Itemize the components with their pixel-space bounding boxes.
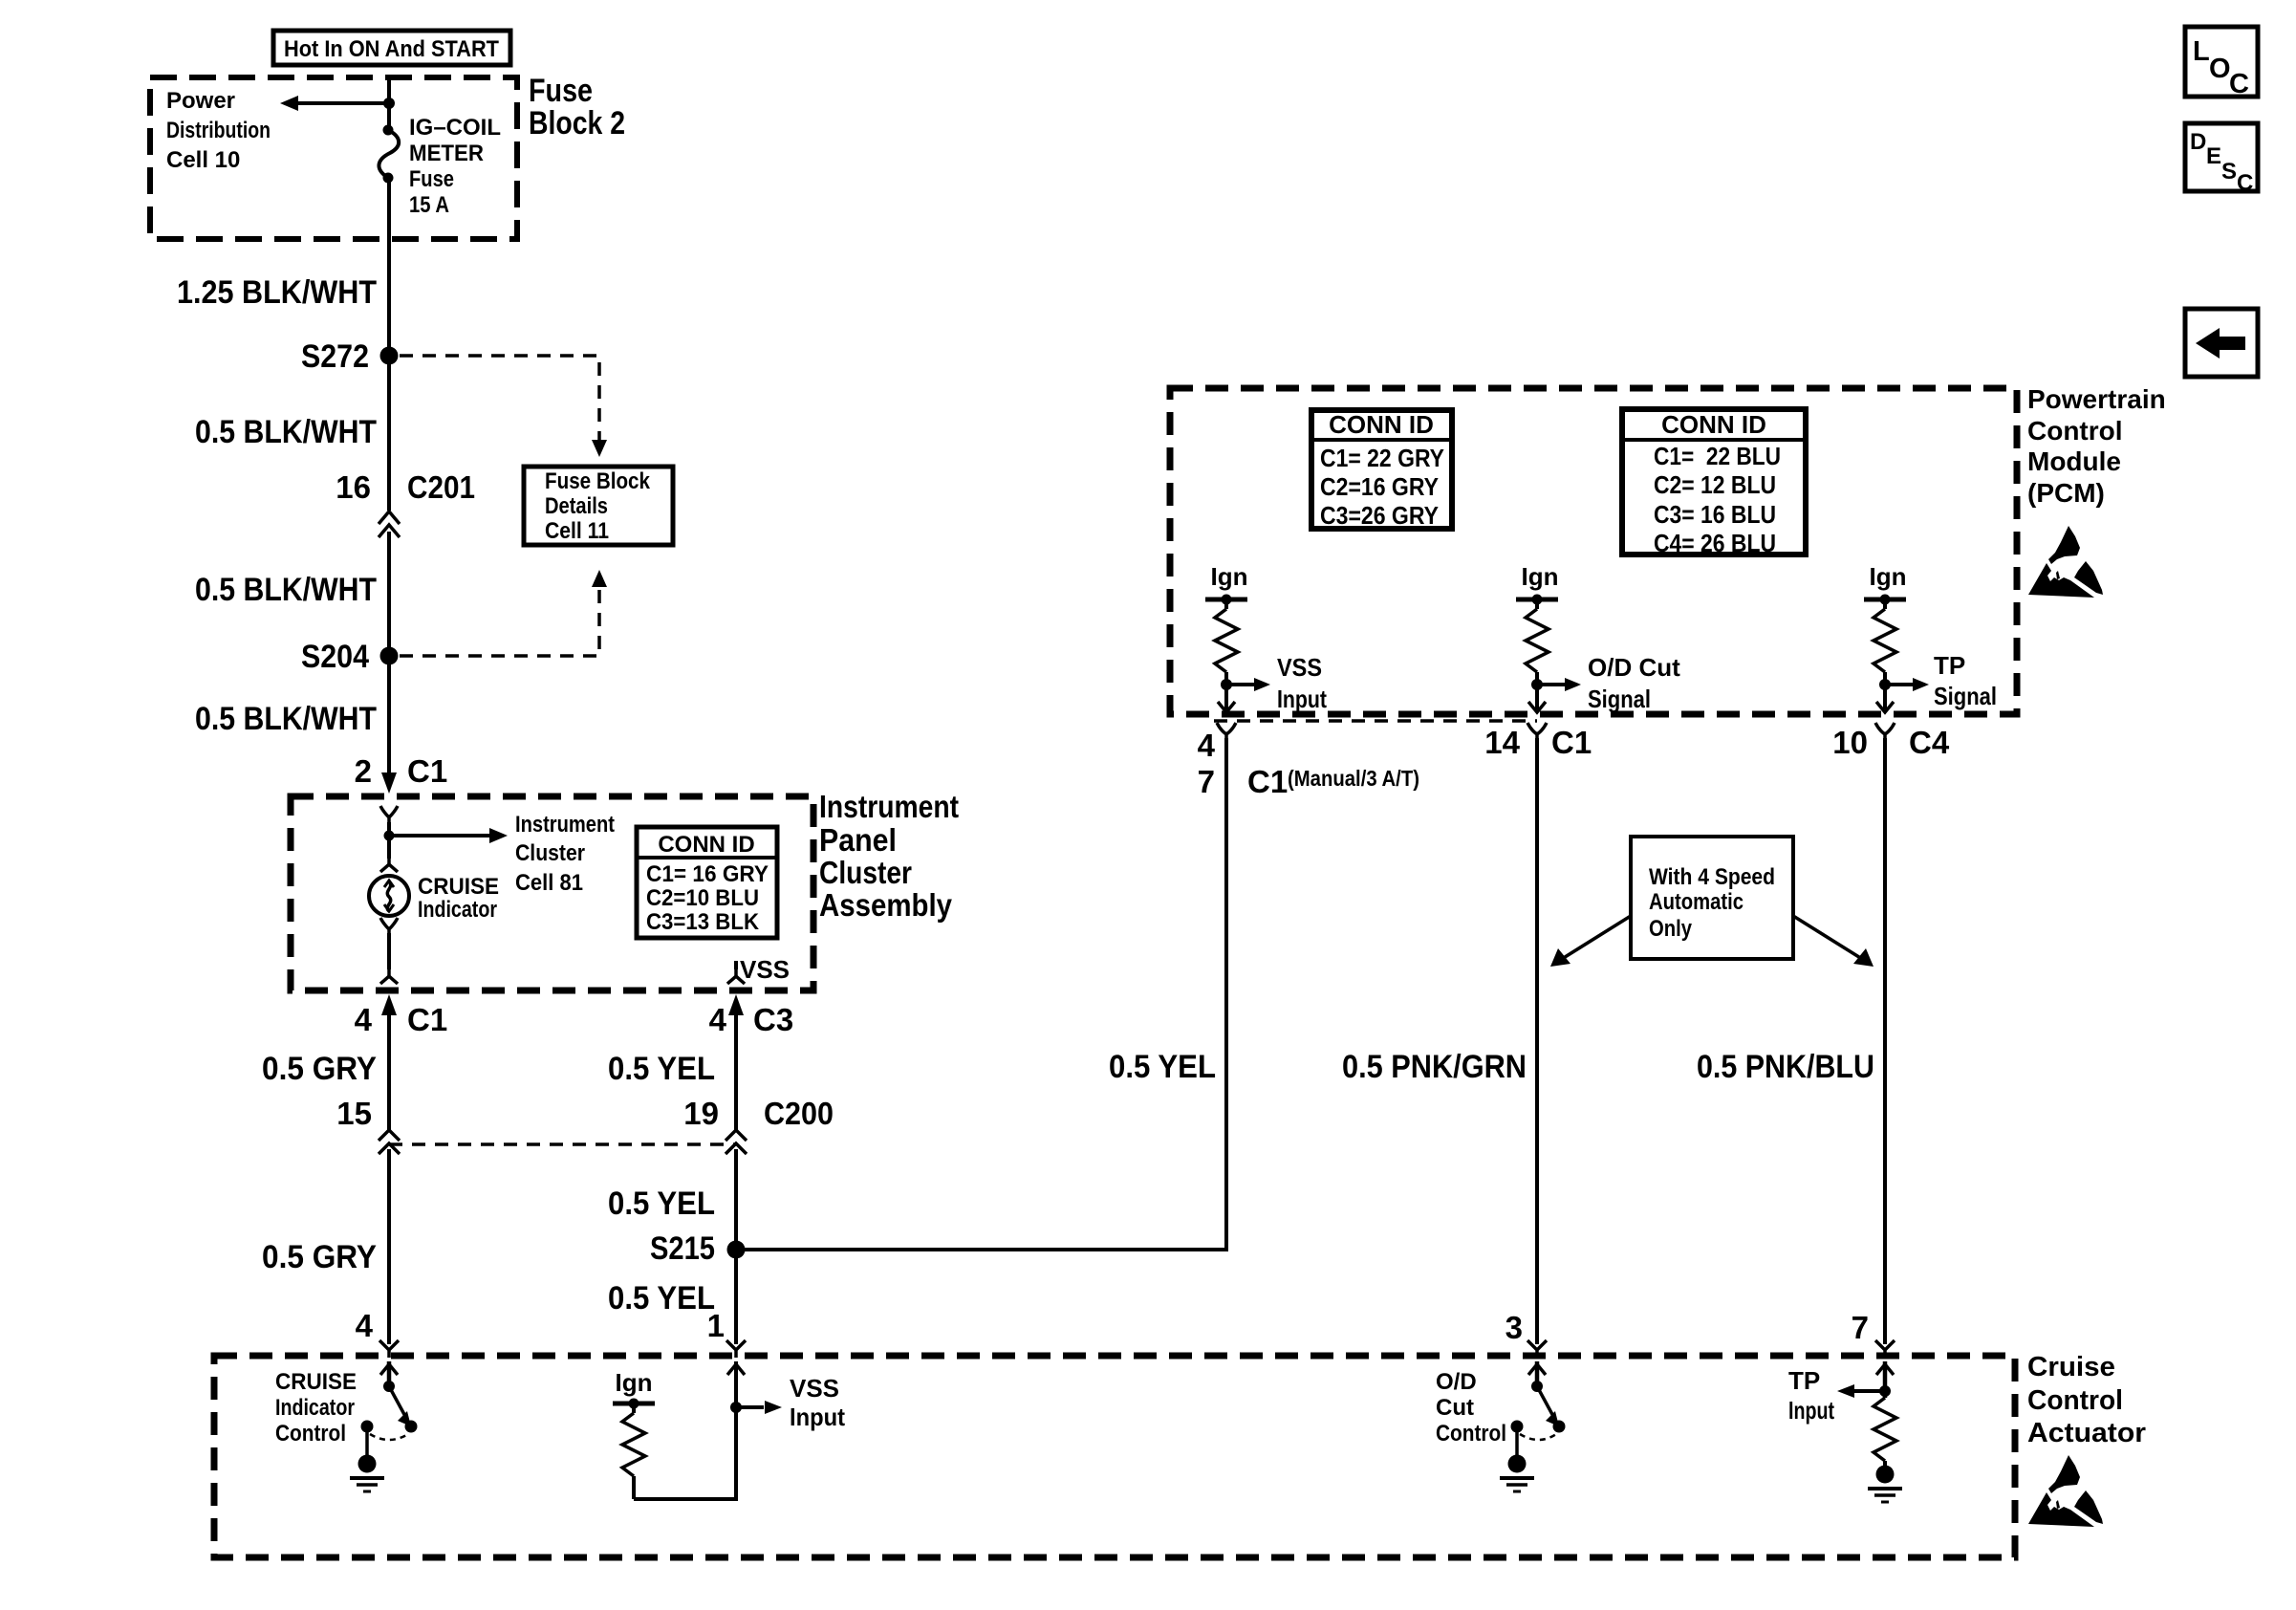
- svg-text:Fuse: Fuse: [529, 73, 593, 109]
- svg-text:Indicator: Indicator: [418, 897, 497, 923]
- node junction to power distribution: [383, 98, 395, 109]
- label O/D Cut Control: [1436, 1369, 1506, 1447]
- svg-text:S272: S272: [301, 338, 369, 375]
- wire VSS inside box: [734, 961, 738, 969]
- connector fork above cruise indicator: [380, 858, 398, 872]
- svg-text:Instrument: Instrument: [819, 789, 959, 824]
- svg-text:VSS: VSS: [790, 1374, 839, 1403]
- wire arrow VSS Input actuator: [736, 1401, 782, 1414]
- connector fork VSS pin 4 C3 inside box bottom: [727, 969, 745, 984]
- svg-text:S: S: [2221, 159, 2237, 185]
- svg-text:3: 3: [1505, 1310, 1523, 1345]
- O/D cut control switch: [1511, 1361, 1566, 1440]
- svg-text:4: 4: [1198, 728, 1216, 763]
- actuator Ign net: [613, 1368, 655, 1409]
- svg-text:C1: C1: [1247, 764, 1288, 799]
- node junction to instrument cluster: [384, 831, 395, 841]
- svg-text:Actuator: Actuator: [2027, 1418, 2146, 1448]
- svg-text:7: 7: [1198, 764, 1215, 799]
- svg-text:C2= 12 BLU: C2= 12 BLU: [1654, 470, 1776, 499]
- svg-text:Cell 81: Cell 81: [515, 870, 583, 896]
- wire arrow O/D Cut Signal: [1537, 678, 1581, 691]
- node S272: [301, 338, 399, 375]
- svg-text:Powertrain: Powertrain: [2027, 384, 2166, 414]
- svg-text:0.5 YEL: 0.5 YEL: [1109, 1049, 1216, 1085]
- wire arrow to Instrument Cluster Cell 81: [389, 828, 508, 843]
- resistor TP input: [1874, 1398, 1896, 1461]
- svg-text:VSS: VSS: [740, 955, 790, 984]
- wire 0.5 PNK/GRN PCM pin 14 to actuator pin 3: [1535, 738, 1539, 1344]
- svg-text:CONN ID: CONN ID: [1661, 410, 1766, 439]
- connector fork actuator pin 7: [1875, 1340, 1895, 1358]
- label VSS Input: [1277, 653, 1327, 713]
- wire C201 to S204: [387, 532, 391, 656]
- dashed reference wire S204 to Fuse Block Details: [400, 570, 607, 656]
- svg-text:19: 19: [683, 1096, 719, 1131]
- svg-text:C3: C3: [753, 1002, 793, 1037]
- svg-text:0.5 YEL: 0.5 YEL: [608, 1280, 715, 1316]
- svg-text:O: O: [2209, 54, 2231, 84]
- ground O/D cut control: [1500, 1426, 1534, 1491]
- svg-text:Automatic: Automatic: [1649, 889, 1744, 915]
- svg-text:Signal: Signal: [1588, 685, 1651, 713]
- svg-text:TP: TP: [1934, 651, 1965, 680]
- cruise indicator lamp: [369, 876, 409, 916]
- svg-text:C1= 16 GRY: C1= 16 GRY: [646, 861, 769, 887]
- pin label 14 C1: [1484, 725, 1592, 760]
- ESD warning symbol actuator: [2028, 1455, 2103, 1527]
- label CRUISE Indicator Control: [275, 1369, 357, 1447]
- note arrow to 0.5 PNK/GRN wire: [1550, 916, 1631, 967]
- wire from Hot In ON And START down to fuse: [387, 80, 391, 130]
- wire cruise indicator to pin 4 C1: [387, 933, 391, 969]
- svg-text:0.5 PNK/GRN: 0.5 PNK/GRN: [1342, 1049, 1527, 1085]
- wire 0.5 YEL to S215: [734, 1149, 738, 1344]
- node TP signal tap: [1879, 679, 1891, 690]
- svg-text:Ign: Ign: [1522, 562, 1559, 591]
- svg-text:10: 10: [1832, 725, 1868, 760]
- svg-text:Input: Input: [1788, 1396, 1834, 1425]
- svg-text:1.25 BLK/WHT: 1.25 BLK/WHT: [177, 274, 377, 311]
- svg-text:Panel: Panel: [819, 822, 897, 858]
- power label box "Hot In ON And START": [273, 31, 510, 65]
- wire resistor to VSS wire: [634, 1361, 736, 1499]
- svg-text:C1= 22 BLU: C1= 22 BLU: [1654, 442, 1781, 470]
- svg-text:C2=10 BLU: C2=10 BLU: [646, 885, 759, 911]
- svg-text:7: 7: [1852, 1310, 1869, 1345]
- arrow into actuator pin 1: [727, 1364, 745, 1375]
- connector C200 pin 19: [683, 1096, 834, 1154]
- svg-text:TP: TP: [1788, 1366, 1820, 1395]
- fuse IG-COIL METER Fuse 15 A: [379, 125, 399, 184]
- svg-text:S204: S204: [301, 639, 369, 675]
- connector fork PCM pin 10 C4: [1875, 723, 1895, 741]
- svg-text:Input: Input: [1277, 685, 1327, 713]
- wire S204 to pin 2 C1: [387, 656, 391, 774]
- connector fork pin 4 C1 inside box bottom: [380, 969, 398, 984]
- wire S272 to connector C201: [387, 356, 391, 511]
- pin labels 4 / 7 C1 (Manual/3 A/T): [1198, 728, 1419, 799]
- label TP Signal: [1934, 651, 1997, 710]
- svg-text:S215: S215: [650, 1230, 715, 1267]
- PCM VSS input pull-up: Ign net: [1205, 562, 1248, 605]
- ESD warning symbol PCM: [2028, 526, 2103, 598]
- resistor PCM O/D cut pull-up: [1526, 599, 1549, 709]
- svg-text:2: 2: [355, 753, 372, 789]
- svg-text:0.5 YEL: 0.5 YEL: [608, 1051, 715, 1087]
- svg-text:C3=26 GRY: C3=26 GRY: [1320, 501, 1439, 530]
- svg-text:Instrument: Instrument: [515, 812, 615, 838]
- TP input pin wire: [1876, 1361, 1894, 1398]
- svg-text:0.5 GRY: 0.5 GRY: [262, 1051, 377, 1087]
- PCM TP signal pull-up: Ign net: [1864, 562, 1907, 605]
- connector fork actuator pin 3: [1527, 1340, 1547, 1358]
- wire to cruise indicator: [387, 822, 391, 859]
- resistor PCM VSS pull-up: [1215, 599, 1238, 709]
- wire arrow TP Signal: [1885, 678, 1929, 691]
- svg-text:Only: Only: [1649, 916, 1693, 942]
- label CRUISE Indicator: [418, 874, 499, 923]
- svg-text:Details: Details: [545, 493, 608, 519]
- wire 0.5 YEL upper segment: [734, 1013, 738, 1132]
- wire arrow TP Input (points left): [1837, 1384, 1891, 1398]
- label IG-COIL METER Fuse 15 A: [409, 115, 501, 218]
- svg-text:15 A: 15 A: [409, 192, 449, 218]
- svg-text:0.5 YEL: 0.5 YEL: [608, 1186, 715, 1222]
- svg-text:Cell 10: Cell 10: [166, 147, 240, 173]
- svg-text:VSS: VSS: [1277, 653, 1322, 682]
- label Instrument Panel Cluster Assembly: [819, 789, 959, 923]
- svg-text:C1: C1: [407, 753, 447, 789]
- svg-text:0.5 PNK/BLU: 0.5 PNK/BLU: [1697, 1049, 1874, 1085]
- svg-text:Cluster: Cluster: [819, 855, 912, 890]
- label Powertrain Control Module (PCM): [2027, 384, 2166, 508]
- svg-text:16: 16: [336, 469, 371, 505]
- svg-text:Cruise: Cruise: [2027, 1352, 2115, 1382]
- connector fork actuator pin 4: [379, 1340, 399, 1358]
- svg-text:Assembly: Assembly: [819, 887, 953, 923]
- arrow into PCM pin 4: [1218, 702, 1235, 712]
- connector fork actuator pin 1: [726, 1340, 746, 1358]
- svg-text:Cut: Cut: [1436, 1395, 1474, 1421]
- svg-text:Cell 11: Cell 11: [545, 518, 609, 544]
- svg-text:4: 4: [709, 1002, 727, 1037]
- svg-text:IG–COIL: IG–COIL: [409, 115, 501, 141]
- conn id table PCM blue: [1622, 409, 1806, 557]
- arrow into PCM pin 14: [1528, 702, 1546, 712]
- connector C201 pin 16: [336, 469, 475, 537]
- svg-text:CONN ID: CONN ID: [1329, 410, 1434, 439]
- svg-text:Cluster: Cluster: [515, 840, 585, 866]
- pin label 10 C4: [1832, 725, 1950, 760]
- svg-text:Block 2: Block 2: [529, 105, 625, 141]
- node S215: [650, 1230, 746, 1267]
- svg-text:C1: C1: [407, 1002, 447, 1037]
- svg-text:CRUISE: CRUISE: [275, 1369, 357, 1395]
- svg-text:Indicator: Indicator: [275, 1395, 355, 1421]
- svg-text:Fuse Block: Fuse Block: [545, 468, 651, 494]
- wire 0.5 GRY upper segment: [387, 1013, 391, 1132]
- svg-text:C3=13 BLK: C3=13 BLK: [646, 909, 760, 935]
- svg-text:With 4 Speed: With 4 Speed: [1649, 864, 1775, 890]
- note box With 4 Speed Automatic Only: [1631, 837, 1793, 959]
- svg-text:CRUISE: CRUISE: [418, 874, 499, 900]
- connector fork below cruise indicator: [380, 918, 398, 935]
- powertrain control module dashed box: [1170, 388, 2017, 714]
- node VSS input tap actuator: [730, 1402, 742, 1413]
- wire arrow VSS Input: [1226, 678, 1270, 691]
- wire fuse to S272: [387, 178, 391, 352]
- fuse block 2 dashed box: [150, 77, 517, 239]
- pin 2 connector C1 into instrument cluster: [355, 753, 448, 794]
- dashed connector C200 link pins 15-19: [389, 1142, 736, 1146]
- svg-text:4: 4: [355, 1002, 373, 1037]
- svg-text:Control: Control: [2027, 416, 2123, 446]
- svg-text:1: 1: [707, 1308, 725, 1343]
- svg-text:Control: Control: [2027, 1385, 2123, 1416]
- cruise control actuator dashed box: [214, 1356, 2015, 1557]
- svg-text:O/D Cut: O/D Cut: [1588, 653, 1680, 682]
- svg-text:Module: Module: [2027, 446, 2121, 476]
- node S204: [301, 639, 399, 675]
- svg-text:C: C: [2237, 170, 2253, 196]
- wire S215 branch to PCM pin 4/7: [736, 738, 1226, 1250]
- dashed reference wire S272 to Fuse Block Details: [400, 356, 607, 457]
- conn id table instrument cluster: [637, 827, 777, 938]
- icon box back arrow: [2185, 309, 2258, 377]
- svg-text:Signal: Signal: [1934, 682, 1997, 710]
- svg-text:Fuse: Fuse: [409, 166, 454, 192]
- svg-text:C: C: [2229, 69, 2249, 99]
- svg-text:D: D: [2190, 129, 2206, 155]
- svg-text:(Manual/3 A/T): (Manual/3 A/T): [1288, 766, 1419, 791]
- ground cruise indicator control: [350, 1426, 384, 1491]
- svg-text:0.5 BLK/WHT: 0.5 BLK/WHT: [195, 414, 377, 450]
- wire 0.5 GRY lower segment: [387, 1149, 391, 1344]
- connector fork PCM pin 14 C1: [1527, 723, 1547, 741]
- ground TP input: [1868, 1461, 1902, 1502]
- wire 0.5 PNK/BLU PCM pin 10 to actuator pin 7: [1883, 738, 1887, 1344]
- svg-text:Ign: Ign: [1870, 562, 1907, 591]
- svg-text:0.5 BLK/WHT: 0.5 BLK/WHT: [195, 701, 377, 737]
- connector fork pin 2 C1 inside box: [380, 806, 398, 824]
- node O/D cut signal tap: [1531, 679, 1543, 690]
- svg-text:E: E: [2206, 143, 2221, 169]
- svg-text:4: 4: [356, 1308, 374, 1343]
- svg-text:CONN ID: CONN ID: [658, 832, 754, 858]
- pin 4 C1 arrow into instrument box bottom: [355, 994, 448, 1037]
- label Instrument Cluster Cell 81: [515, 812, 615, 896]
- label VSS Input actuator: [790, 1374, 845, 1431]
- icon box DESC: [2185, 123, 2258, 196]
- svg-text:14: 14: [1484, 725, 1520, 760]
- svg-text:Ign: Ign: [1211, 562, 1248, 591]
- conn id table PCM gray: [1311, 410, 1452, 530]
- svg-text:C1= 22 GRY: C1= 22 GRY: [1320, 444, 1444, 472]
- cruise indicator control switch: [361, 1361, 418, 1440]
- PCM O/D cut pull-up: Ign net: [1516, 562, 1559, 605]
- label TP Input: [1788, 1366, 1834, 1425]
- arrow into PCM pin 10: [1876, 702, 1894, 712]
- node VSS input tap: [1221, 679, 1232, 690]
- connector C200 pin 15: [336, 1096, 400, 1154]
- svg-text:0.5 BLK/WHT: 0.5 BLK/WHT: [195, 572, 377, 608]
- wire arrow to Power Distribution Cell 10: [280, 96, 389, 111]
- label Power Distribution Cell 10: [166, 88, 271, 173]
- svg-text:Power: Power: [166, 88, 235, 114]
- svg-text:Ign: Ign: [616, 1368, 653, 1397]
- note arrow to 0.5 PNK/BLU wire: [1793, 916, 1874, 967]
- svg-text:C1: C1: [1551, 725, 1592, 760]
- resistor PCM TP pull-up: [1874, 599, 1896, 709]
- instrument panel cluster assembly dashed box: [291, 796, 813, 990]
- svg-text:O/D: O/D: [1436, 1369, 1477, 1395]
- svg-text:C200: C200: [764, 1096, 834, 1131]
- svg-text:METER: METER: [409, 141, 484, 166]
- svg-text:Control: Control: [1436, 1421, 1506, 1447]
- svg-text:Control: Control: [275, 1421, 346, 1447]
- resistor actuator Ign: [622, 1403, 645, 1499]
- icon box LOC: [2185, 27, 2258, 99]
- label Cruise Control Actuator: [2027, 1352, 2146, 1448]
- dashed connector C1 link pins 4-14: [1214, 719, 1537, 723]
- svg-text:L: L: [2193, 36, 2210, 67]
- connector fork PCM pin 4/7 C1: [1217, 723, 1236, 741]
- pin 4 C3 arrow into instrument box bottom: [709, 994, 794, 1037]
- svg-text:C201: C201: [407, 469, 475, 505]
- svg-text:C4= 26 BLU: C4= 26 BLU: [1654, 529, 1776, 557]
- svg-text:15: 15: [336, 1096, 372, 1131]
- svg-text:Distribution: Distribution: [166, 118, 271, 143]
- svg-text:C3= 16 BLU: C3= 16 BLU: [1654, 500, 1776, 529]
- label O/D Cut Signal: [1588, 653, 1680, 713]
- svg-text:C4: C4: [1909, 725, 1950, 760]
- svg-text:(PCM): (PCM): [2027, 478, 2105, 508]
- label Fuse Block 2: [529, 73, 625, 141]
- svg-text:Input: Input: [790, 1403, 845, 1431]
- svg-text:0.5 GRY: 0.5 GRY: [262, 1239, 377, 1275]
- box Fuse Block Details Cell 11: [524, 467, 673, 545]
- svg-text:C2=16 GRY: C2=16 GRY: [1320, 472, 1439, 501]
- svg-text:Hot In ON And START: Hot In ON And START: [284, 36, 499, 62]
